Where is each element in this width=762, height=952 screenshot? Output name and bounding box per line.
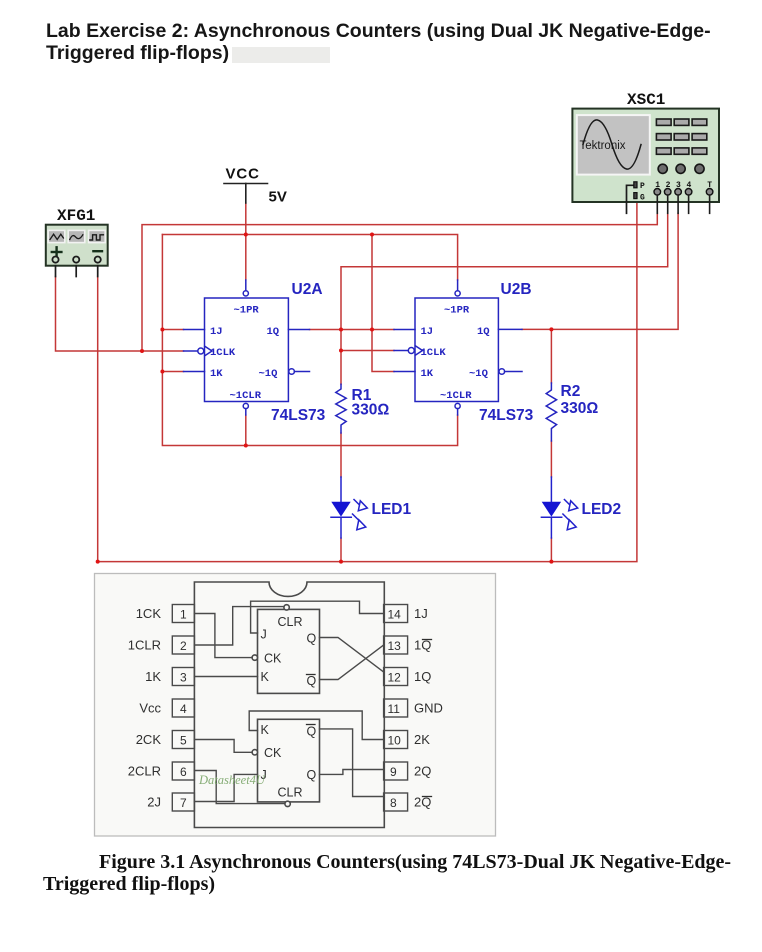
svg-text:U2A: U2A	[292, 281, 323, 298]
svg-text:Datasheet4U: Datasheet4U	[198, 773, 266, 787]
wire Q1 to U2B clock	[341, 350, 394, 352]
pin 13 box	[384, 636, 408, 654]
svg-text:3: 3	[180, 671, 187, 685]
svg-text:330Ω: 330Ω	[352, 402, 390, 419]
pin 12 box	[384, 668, 408, 686]
pin 3 box	[172, 668, 194, 686]
wire Q2 to pin9	[320, 770, 384, 775]
wire pin6 to CLR2 bubble	[194, 771, 285, 804]
svg-text:12: 12	[388, 671, 402, 685]
svg-text:P: P	[640, 182, 645, 191]
junction Q2 node at R2 column	[549, 327, 553, 331]
title text	[46, 20, 711, 64]
wire scope ch1 to clock node	[142, 213, 657, 351]
svg-text:330Ω: 330Ω	[561, 400, 599, 417]
svg-text:1CLK: 1CLK	[210, 347, 236, 359]
wire Qbar2 to pin8	[320, 729, 384, 797]
svg-text:7: 7	[180, 796, 187, 810]
pin 9 box	[384, 762, 408, 780]
svg-text:1K: 1K	[210, 368, 223, 380]
svg-text:Q: Q	[307, 768, 317, 782]
svg-text:CK: CK	[264, 652, 282, 666]
pin 14 box	[384, 605, 408, 623]
flip-flop U2A (74LS73)	[184, 280, 326, 424]
wire VCC branch down left to clear bus	[162, 235, 457, 446]
junction ground at LED2	[549, 560, 553, 564]
svg-text:CLR: CLR	[278, 786, 303, 800]
pin 7 box	[172, 793, 194, 811]
LED1	[331, 477, 412, 538]
svg-text:2K: 2K	[414, 732, 430, 747]
wire R2 to LED2	[550, 441, 552, 477]
wire pin3 to K1	[194, 676, 257, 678]
svg-text:GND: GND	[414, 701, 443, 716]
svg-text:2CLR: 2CLR	[128, 764, 161, 779]
svg-text:1Q: 1Q	[414, 669, 431, 684]
svg-text:Vcc: Vcc	[139, 701, 161, 716]
bottom JK flip-flop block	[252, 719, 319, 806]
svg-text:XSC1: XSC1	[627, 91, 665, 109]
svg-text:LED2: LED2	[582, 501, 622, 518]
svg-text:1Q: 1Q	[477, 326, 490, 338]
svg-text:1K: 1K	[145, 669, 161, 684]
svg-text:Q: Q	[307, 632, 317, 646]
svg-text:R2: R2	[561, 383, 581, 400]
resistor R2 330ohm	[546, 383, 598, 441]
wire VCC stem to U2A preset	[245, 203, 247, 280]
svg-text:CLR: CLR	[278, 615, 303, 629]
wire U2A 1K feed	[162, 371, 183, 373]
svg-text:1: 1	[180, 608, 187, 622]
resistor R1 330ohm	[336, 384, 390, 433]
wire Qbar1 to pin13	[320, 645, 384, 680]
junction U2B clock tap	[339, 349, 343, 353]
svg-text:~1CLR: ~1CLR	[440, 390, 472, 402]
oscilloscope XSC1	[572, 91, 719, 213]
svg-text:1J: 1J	[421, 326, 434, 338]
wire pin2 to CLR1 bubble	[194, 607, 284, 645]
junction U2B J feed	[370, 328, 374, 332]
svg-text:14: 14	[388, 608, 402, 622]
junction Q1 node at R1 column	[339, 328, 343, 332]
svg-text:1CLK: 1CLK	[421, 347, 447, 359]
svg-text:~1Q: ~1Q	[469, 368, 488, 380]
svg-text:Tektronix: Tektronix	[580, 140, 626, 152]
LED2	[541, 477, 621, 538]
junction U2B JK feed on VCC bus	[370, 233, 374, 237]
junction ground at LED1	[339, 560, 343, 564]
74LS73 pinout diagram frame	[95, 574, 496, 837]
svg-text:2Q: 2Q	[414, 764, 431, 779]
pin 2 box	[172, 636, 194, 654]
svg-text:2CK: 2CK	[136, 732, 162, 747]
wire Q1 to pin12	[320, 638, 384, 673]
svg-text:~1CLR: ~1CLR	[230, 390, 262, 402]
pin 8 box	[384, 793, 408, 811]
wire U2A 1J feed	[162, 329, 183, 331]
junction VCC stem	[244, 233, 248, 237]
power VCC 5V	[224, 166, 287, 206]
wire LED2 to ground bus	[550, 538, 552, 562]
svg-text:1CLR: 1CLR	[128, 638, 161, 653]
svg-text:9: 9	[390, 765, 397, 779]
svg-text:1Q: 1Q	[267, 326, 280, 338]
svg-text:13: 13	[388, 639, 402, 653]
svg-text:1K: 1K	[421, 368, 434, 380]
pin 4 box	[172, 699, 194, 717]
flip-flop U2B (74LS73)	[394, 280, 534, 424]
wire scope ch2 to Q1 node	[341, 213, 668, 384]
wire LED1 to ground bus	[340, 538, 342, 562]
svg-text:~1PR: ~1PR	[234, 305, 260, 317]
svg-text:CK: CK	[264, 746, 282, 760]
wire XFG1 plus to U2A clock	[56, 277, 184, 352]
pin 5 box	[172, 731, 194, 749]
wire R1 to LED1	[340, 433, 342, 477]
svg-text:5V: 5V	[269, 189, 287, 206]
pinout internal wires	[194, 601, 383, 803]
svg-text:~1Q: ~1Q	[259, 368, 278, 380]
function generator XFG1	[46, 207, 108, 277]
wire pin5 to CK2 bubble	[194, 740, 252, 753]
svg-text:LED1: LED1	[372, 501, 412, 518]
svg-text:G: G	[640, 194, 645, 203]
IC body outline with notch	[194, 582, 384, 828]
junction 1J tap	[160, 328, 164, 332]
svg-text:2J: 2J	[147, 795, 161, 810]
svg-text:2: 2	[180, 639, 187, 653]
pin 10 box	[384, 731, 408, 749]
svg-text:10: 10	[388, 734, 402, 748]
svg-text:K: K	[261, 723, 270, 737]
pin 1 box	[172, 605, 194, 623]
wire VCC bus to U2B preset	[162, 235, 457, 281]
svg-text:5: 5	[180, 734, 187, 748]
svg-text:XFG1: XFG1	[57, 207, 95, 225]
wire pin7 to J2	[194, 774, 257, 801]
left pin labels	[128, 606, 162, 810]
wire U2B J/K vertical feed	[372, 235, 394, 372]
wire pin10 to K2	[249, 711, 383, 740]
wire U2B 1Q down to R2	[550, 329, 552, 383]
svg-text:74LS73: 74LS73	[271, 407, 326, 424]
svg-text:11: 11	[388, 702, 401, 716]
wire pin14 to J1	[251, 601, 384, 633]
svg-text:Q: Q	[307, 725, 317, 739]
junction U2A clear on clear bus	[244, 444, 248, 448]
svg-text:1J: 1J	[414, 606, 428, 621]
pin 6 box	[172, 762, 194, 780]
wire U2B 1Q to scope ch3	[522, 213, 678, 329]
svg-text:74LS73: 74LS73	[479, 407, 534, 424]
svg-text:J: J	[261, 628, 267, 642]
svg-text:U2B: U2B	[501, 281, 532, 298]
junction ground at XFG1 minus	[96, 560, 100, 564]
svg-text:~1PR: ~1PR	[444, 305, 470, 317]
svg-text:Q: Q	[307, 674, 317, 688]
svg-text:8: 8	[390, 796, 397, 810]
top JK flip-flop block	[252, 605, 319, 694]
svg-text:K: K	[261, 670, 270, 684]
right pin labels	[414, 606, 443, 810]
svg-text:1J: 1J	[210, 326, 223, 338]
svg-text:4: 4	[180, 702, 187, 716]
wire pin1 to CK1 bubble	[194, 614, 252, 658]
caption	[43, 852, 743, 895]
pin 11 box	[384, 699, 408, 717]
junction 1K tap	[160, 370, 164, 374]
junction ch1 on clock wire	[140, 349, 144, 353]
svg-text:VCC: VCC	[226, 166, 260, 183]
svg-text:1CK: 1CK	[136, 606, 162, 621]
wire U2A 1Q row to U2B 1J	[310, 329, 395, 331]
svg-text:6: 6	[180, 765, 187, 779]
wire ground bus XFG1 minus to scope G	[98, 199, 637, 562]
wire U2A clear riser	[245, 415, 247, 446]
